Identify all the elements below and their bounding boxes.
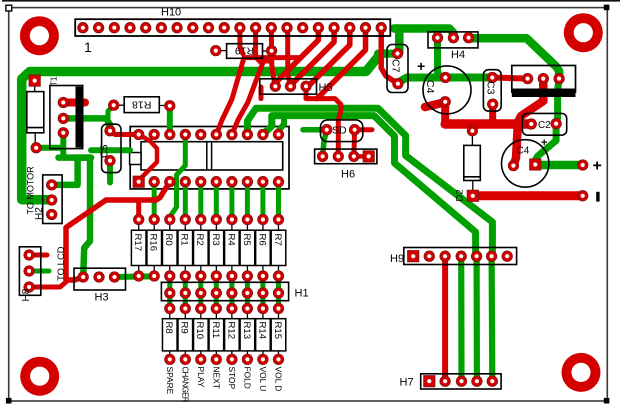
plus terminal pad [578,160,588,170]
svg-text:H3: H3 [95,292,109,304]
svg-text:R15: R15 [272,322,283,340]
wire red U1 pin7 to R19.2 junction [232,61,272,135]
wire red H10.11 drop to pin6 net [240,28,243,54]
wire green C4b.2 to + terminal [535,161,582,170]
wire green B: U1 pin9 to H9.5 [263,116,476,257]
wire red H6.3 to H6.4 [354,154,369,159]
wire red branch to R17 pad [136,200,141,220]
header H3 [74,268,126,290]
wire green cross bar [59,154,92,161]
svg-text:C2: C2 [538,120,551,131]
header H9 pads [408,251,419,262]
wire green SD.1 to H6.1 [303,127,327,133]
svg-text:C4: C4 [517,146,530,157]
diode D1 [27,92,44,133]
wire red R19.2 to H10.13 [269,28,274,51]
svg-text:H7: H7 [400,377,414,389]
svg-text:R6: R6 [256,234,267,246]
svg-text:R16: R16 [148,234,159,252]
resistor R19 pads [211,45,221,55]
svg-text:C4: C4 [424,80,436,94]
wire red relay pin1 to C3.1 [492,78,527,79]
wire red H9.3 to H7.2 [442,256,448,381]
transistor T1 [50,86,83,149]
wire green H3.3 to R17/R16 bottom pads [115,273,155,280]
capacitor C2 [522,113,566,135]
capacitor C2 pads [526,119,536,129]
wire green T1.2 to C5.1 [63,118,110,130]
svg-text:T1: T1 [50,76,59,86]
corner handle bottom-left [6,398,12,404]
svg-text:R17: R17 [132,234,143,252]
mounting hole bottom-left [20,357,59,396]
wire red H10.14 to H5.2 [288,28,291,87]
header H10 pads [78,23,88,33]
svg-text:H4: H4 [451,49,465,61]
svg-text:+: + [417,58,425,74]
header H2 [43,175,62,224]
header H8 [19,247,40,295]
corner handle top-right [604,5,610,11]
wire red C4a.2 down [441,102,449,124]
svg-text:R9: R9 [179,322,190,334]
op-amp U1 pads [134,129,144,139]
corner handle top-left [6,5,12,11]
R8-R15 top pads [165,303,175,313]
header H2 pads [47,180,57,190]
wire green H2.2 to H10.20 main bus [22,54,383,200]
svg-text:R8: R8 [163,322,174,334]
minus terminal pad [578,191,588,201]
header H6 [315,149,377,164]
svg-text:R14: R14 [256,322,267,340]
capacitor C3 [483,70,501,111]
wire red H8.1 stub [29,253,47,258]
svg-text:CHANGER: CHANGER [180,367,189,403]
jumper SD pads [322,125,332,135]
svg-text:H1: H1 [295,288,309,300]
capacitor C4 (upper) [423,66,471,114]
capacitor C5 pads [105,126,115,136]
svg-text:R4: R4 [225,234,236,247]
svg-text:1: 1 [84,39,92,55]
svg-text:TO LCD: TO LCD [56,246,67,281]
resistor R19 [227,44,263,59]
wire red minus bar D2.2 to terminal [473,191,583,200]
svg-text:C5: C5 [99,144,111,158]
wire red H10.16 to H5.1 [275,28,318,87]
header H7 pads [424,376,435,387]
wire red SD.2 stub right [355,127,372,132]
svg-text:H9: H9 [390,253,404,265]
svg-text:R18: R18 [132,98,151,110]
wire red to D2 top pad [470,124,475,131]
svg-text:R11: R11 [210,322,221,339]
svg-text:R7: R7 [272,234,283,246]
wire green relay pin3 to C2.2 [556,79,559,124]
header H5 [260,79,317,94]
diode D1 pads [29,75,40,86]
wires green U1 pins to resistor-row pads [152,182,157,220]
wire red H8.3 to H3 net [29,282,66,287]
wire red H10.12 drop to pin7 net [256,28,261,62]
wire green R18.1 to C5.1 [108,105,114,131]
wire green H8.2 stub [29,269,49,274]
wire red U1 pin1 thread to pin1b [139,135,157,182]
relay K1 pads [522,73,532,83]
transistor T1 pads [58,97,68,107]
svg-text:H10: H10 [161,7,181,19]
resistor array R17 R16 R0-R7 [131,230,146,265]
header H8 pads [24,250,34,260]
capacitor C4 upper pads [440,72,450,82]
svg-text:PLAY: PLAY [196,367,206,388]
header H9 [404,248,517,265]
wire red SD.2 to H6.3 [351,130,357,157]
svg-text:H5: H5 [319,82,333,94]
wire green stub to U1 notch [91,147,130,153]
header H10 [75,19,390,36]
header H5 pads [270,81,280,91]
svg-text:H8: H8 [21,288,32,301]
wires green resistor bottoms through H1 to R8-R15 row [167,276,172,309]
wire red H10.20 to C7.2 [381,28,398,84]
mounting hole top-right [564,13,603,52]
wire red stub near H5 [259,87,264,99]
wire green C7.2 / C4.top / C3.top bus [399,78,492,83]
header H7 [421,374,501,389]
resistor R18 [124,97,159,113]
wire green branch to C7.1 [378,50,398,58]
capacitor C4 (lower) [502,140,549,187]
capacitor C7 [387,45,408,93]
wire green branch B to U1 pin10 [278,116,284,135]
svg-text:NEXT: NEXT [211,367,221,389]
header H3 pads [78,272,88,282]
svg-text:R13: R13 [241,322,252,340]
relay K1 [512,66,576,93]
screenshot top border [2,0,620,2]
wire green U1 pin4 thread to R0 pad [170,135,185,220]
capacitor C4 lower pads [508,160,518,170]
svg-text:+: + [541,137,547,149]
resistor array R8-R15 [162,319,177,351]
mounting hole top-left [20,16,59,55]
svg-text:R19: R19 [235,45,254,57]
wire red U1 pin3b to H3.1 [66,182,170,280]
diode D2 [464,145,481,180]
header H1 [161,282,288,300]
corner handle bottom-right [604,398,610,404]
resistor array top pads [134,214,144,224]
diode D2 pads [467,126,477,136]
svg-text:R10: R10 [194,322,205,340]
svg-text:STOP: STOP [227,367,237,390]
wire green H10.20 to H4.2 [394,29,453,54]
wire red H10.17 to H5.2 [291,28,335,87]
wire red relay pin2 to C4b.1 [513,79,543,166]
wire green H4.3 to relay pin3 [469,38,559,78]
capacitor C3 pads [487,72,497,82]
wire red T1.1 stub [63,99,85,107]
capacitor C7 pads [392,48,402,58]
capacitor C5 [102,124,121,172]
svg-text:VOL U: VOL U [258,367,268,392]
wires green H9 to H7 [458,256,464,381]
svg-text:TO MOTOR: TO MOTOR [26,166,36,215]
svg-text:R1: R1 [179,234,190,246]
resistor R18 pads [109,100,119,110]
wire green R18.2 to U1 pin3 [167,106,173,135]
svg-text:H6: H6 [341,169,355,181]
svg-text:+: + [593,158,602,175]
header H4 [428,32,478,48]
wire red C4a.2 stub [425,103,444,108]
wire green C5.2 stub [107,161,113,183]
mounting hole bottom-right [562,353,601,392]
wire red power bar C4a to C2.1 [445,119,531,129]
wire green H4.1 down to C4 bus [438,38,441,78]
svg-text:R3: R3 [210,234,221,246]
wire green to H3.1 [83,158,90,277]
svg-text:VOL D: VOL D [273,367,283,392]
svg-text:C7: C7 [390,59,402,73]
wire green A: U1 pin8 to H9.6 [247,108,492,256]
svg-text:R0: R0 [163,234,174,246]
wire red H5.3 to H6.2 [306,86,341,156]
svg-text:D2: D2 [455,189,466,201]
svg-text:SD: SD [332,125,347,137]
header H6 pads [317,151,327,161]
jumper SD [321,120,363,142]
wire green D1.2 to T1 net [36,145,63,151]
svg-text:R2: R2 [194,234,205,246]
wire red C5.1 to U1 pin1 [110,131,139,135]
svg-text:R5: R5 [241,234,252,246]
svg-text:C3: C3 [485,81,497,95]
wire red C3.2 down [489,104,496,124]
wire green H2.1 loop [52,158,91,185]
wire red U1 pin6 to C7.2 [216,58,301,135]
wire green C2.2 to C4b plus pad [535,124,556,165]
label - main [596,192,599,202]
resistor array bottom pads [134,271,144,281]
svg-text:H2: H2 [34,207,45,220]
wire red H10.18 to H5.3 [306,28,350,87]
wire red H10.19 to H6 net [317,28,366,99]
svg-text:FOLD: FOLD [242,367,252,389]
header H1 pads [165,288,175,298]
wire red R19.2 to H5.1 [272,51,276,87]
wire green T1.3 down [60,133,66,158]
op-amp U1 socket body [130,127,289,189]
header H4 pads [432,33,442,43]
svg-text:R12: R12 [225,322,236,340]
svg-text:SPARE: SPARE [165,367,175,395]
R8-R15 bottom pads [165,354,175,364]
